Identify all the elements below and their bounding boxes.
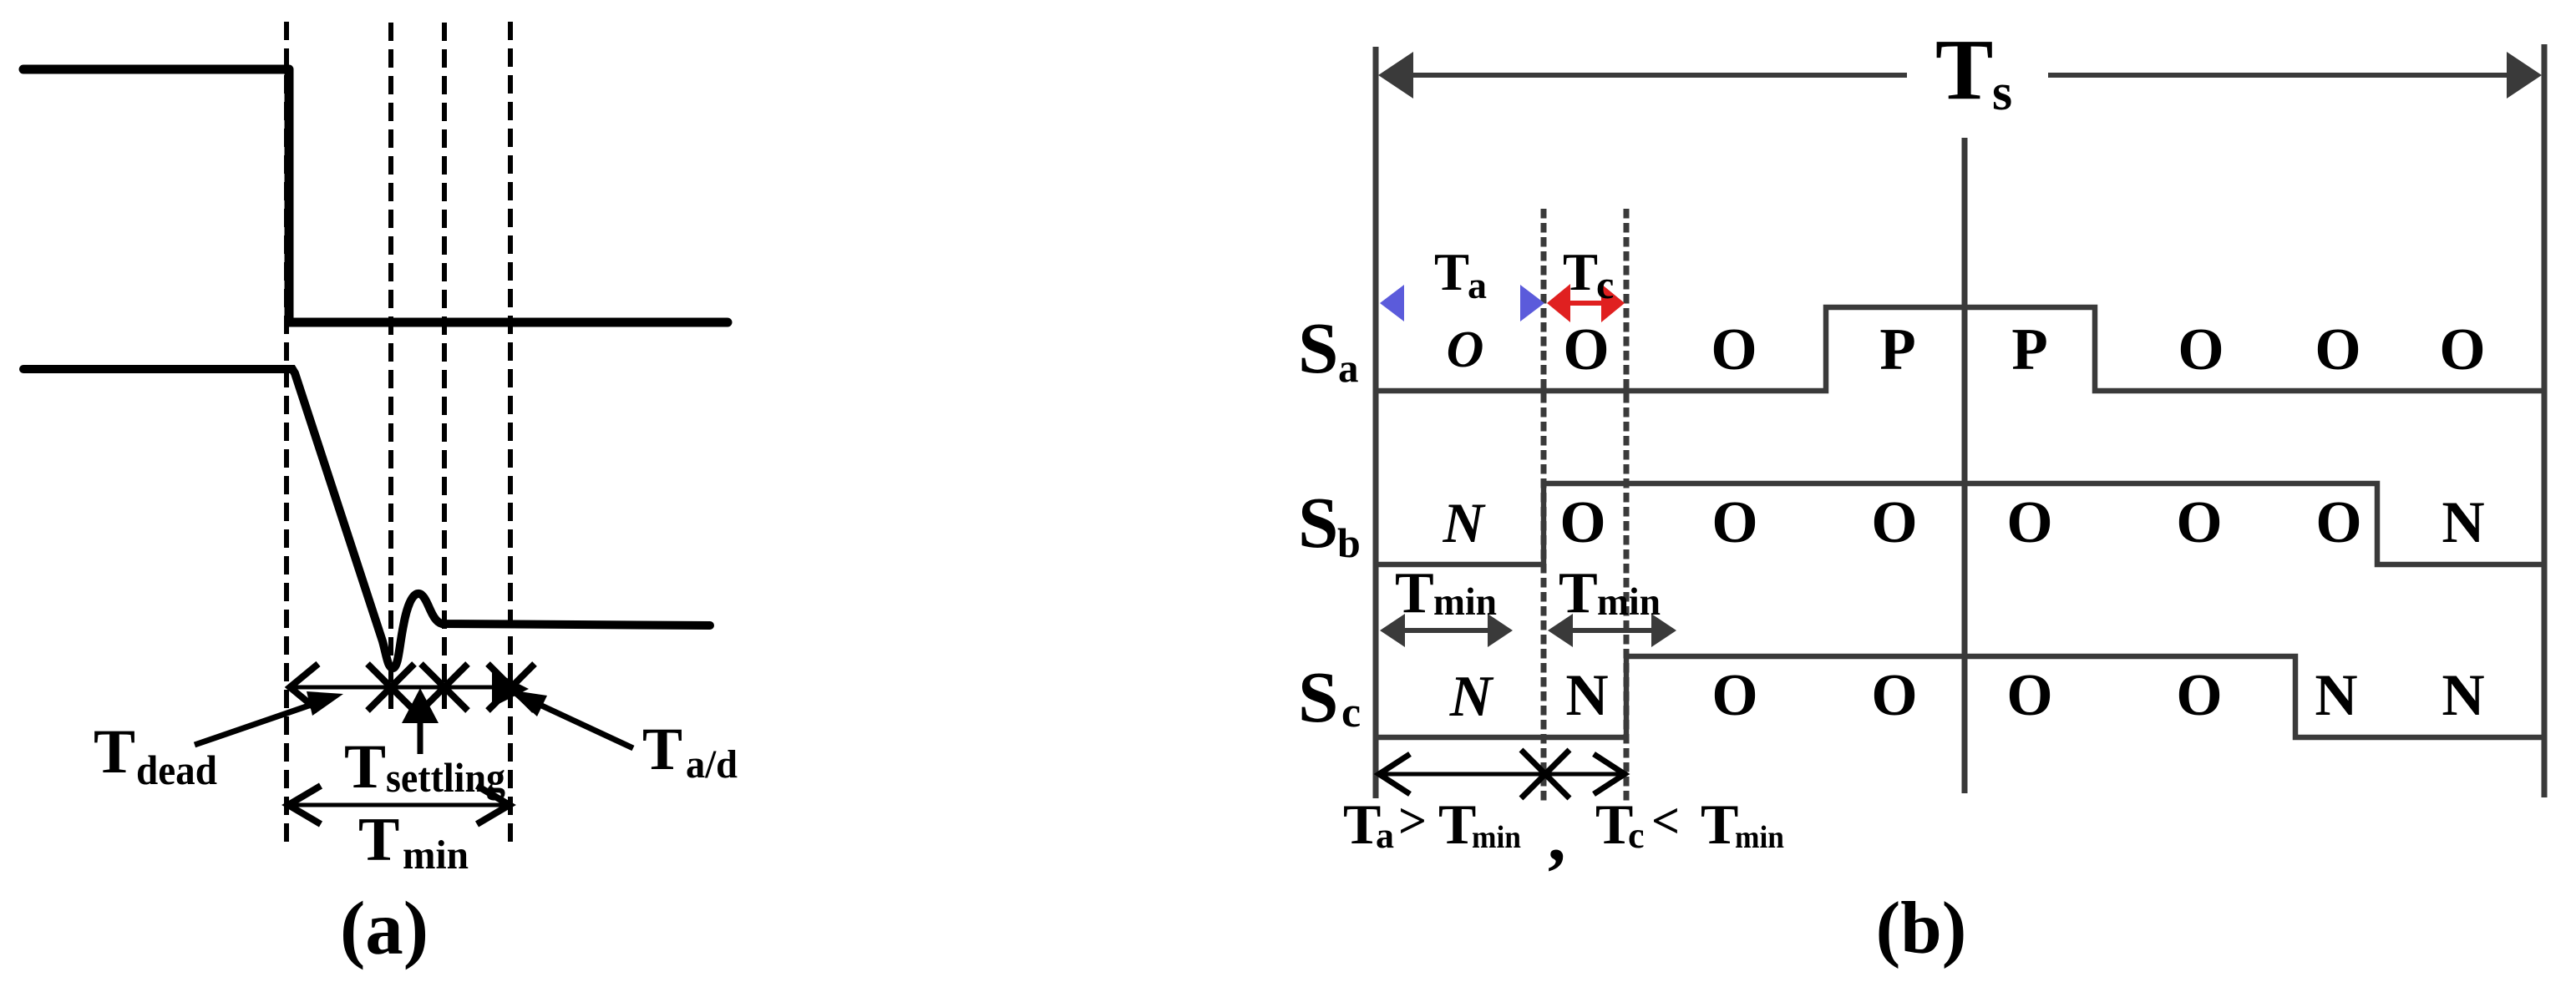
svg-text:T: T [1563, 243, 1598, 301]
svg-text:O: O [1871, 663, 1917, 728]
svg-text:P: P [2011, 317, 2047, 382]
svg-text:T: T [344, 732, 386, 802]
svg-text:min: min [1433, 580, 1497, 624]
svg-text:s: s [1992, 64, 2012, 121]
svg-text:dead: dead [136, 747, 217, 793]
svg-text:N: N [1449, 665, 1494, 729]
svg-text:T: T [642, 716, 682, 782]
svg-text:settling: settling [386, 754, 505, 801]
svg-text:T: T [94, 717, 135, 787]
svg-text:T: T [1395, 561, 1434, 625]
svg-text:S: S [1298, 307, 1338, 388]
svg-text:S: S [1298, 656, 1338, 737]
svg-text:a: a [1338, 345, 1359, 391]
svg-text:O: O [1559, 490, 1605, 555]
svg-text:O: O [1711, 663, 1757, 728]
svg-text:O: O [2178, 317, 2224, 382]
svg-text:c: c [1341, 689, 1361, 736]
svg-text:min: min [1735, 820, 1784, 855]
svg-text:P: P [1879, 317, 1915, 382]
svg-text:<: < [1651, 793, 1680, 848]
svg-text:O: O [2006, 490, 2052, 555]
svg-text:S: S [1298, 482, 1338, 563]
svg-text:O: O [1563, 317, 1609, 382]
svg-text:O: O [2176, 663, 2222, 728]
svg-text:T: T [358, 806, 399, 874]
svg-text:a: a [1376, 815, 1394, 856]
svg-text:N: N [1565, 663, 1608, 728]
svg-text:min: min [1472, 820, 1521, 855]
svg-text:N: N [2442, 490, 2484, 555]
svg-text:(a): (a) [340, 886, 428, 970]
svg-text:O: O [2176, 490, 2222, 555]
svg-text:T: T [1434, 243, 1469, 301]
svg-text:O: O [1711, 490, 1757, 555]
svg-text:c: c [1596, 263, 1614, 307]
svg-text:O: O [1871, 490, 1917, 555]
svg-text:O: O [2006, 663, 2052, 728]
svg-text:>: > [1398, 793, 1427, 848]
svg-text:O: O [2439, 317, 2485, 382]
svg-text:(b): (b) [1876, 888, 1967, 969]
svg-text:min: min [1597, 580, 1661, 624]
svg-text:T: T [1935, 22, 1993, 118]
svg-text:T: T [1438, 792, 1476, 856]
svg-text:b: b [1337, 519, 1361, 566]
svg-text:O: O [1447, 321, 1484, 378]
svg-text:N: N [2315, 663, 2357, 728]
svg-text:N: N [1442, 491, 1486, 554]
svg-text:a: a [1468, 264, 1487, 306]
svg-text:,: , [1548, 796, 1566, 876]
svg-text:T: T [1559, 561, 1598, 625]
svg-text:min: min [403, 832, 469, 878]
svg-text:N: N [2442, 663, 2484, 728]
svg-text:O: O [1711, 317, 1757, 382]
svg-text:a/d: a/d [686, 742, 738, 787]
svg-text:T: T [1701, 792, 1738, 856]
svg-text:O: O [2315, 317, 2360, 382]
svg-text:c: c [1628, 815, 1645, 856]
svg-text:O: O [2315, 490, 2361, 555]
